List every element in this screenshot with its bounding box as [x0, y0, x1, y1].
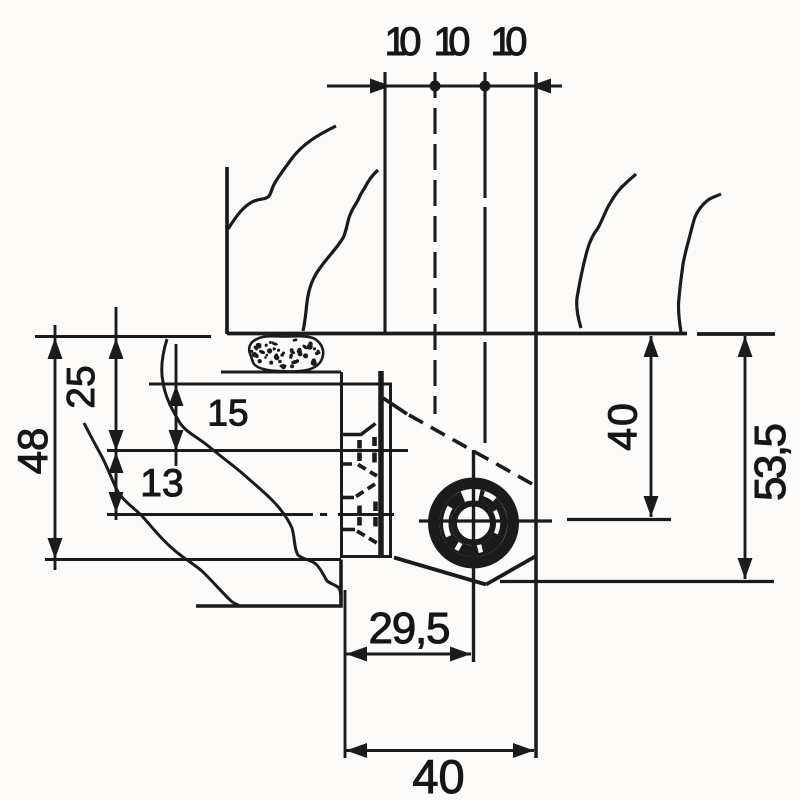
frame grain A — [162, 339, 341, 603]
frame grain B — [84, 423, 240, 606]
node dot at x=485 — [480, 81, 491, 92]
frame bottom line y=559.5 — [45, 558, 341, 561]
top dimension line 10-10-10 — [327, 85, 562, 88]
boundary line y=514 (13 bottom) — [107, 513, 394, 516]
dimension 48 line — [54, 325, 57, 570]
screw 1 hidden bottom — [343, 462, 357, 466]
clip hook white notch — [484, 494, 495, 500]
screw 2 hidden top — [343, 496, 354, 500]
wood grain panel B — [303, 170, 378, 331]
svg-text:40: 40 — [412, 750, 464, 800]
svg-text:25: 25 — [60, 365, 103, 408]
wood grain panel A — [228, 126, 336, 229]
arrow left of 10-dimension — [370, 79, 391, 94]
wood panel left edge — [225, 167, 229, 334]
hinge body bottom left diagonal — [394, 558, 486, 585]
dimension 40 right line — [650, 336, 653, 517]
frame top edge — [35, 335, 211, 338]
knuckle outer ring — [434, 483, 514, 563]
dimension 15 line — [175, 344, 178, 466]
hinge body bottom right diagonal — [486, 556, 536, 585]
right outer edge line x=536 — [534, 72, 538, 758]
screw 1 head solid top — [343, 424, 376, 435]
svg-text:10: 10 — [491, 20, 528, 64]
screw 1 hidden dashes — [360, 437, 375, 463]
svg-text:10: 10 — [385, 20, 422, 64]
boundary line y=450 (15/13) — [107, 449, 408, 452]
seal speckles — [250, 338, 320, 369]
arrow right of 10-dimension — [530, 79, 551, 94]
dimension 25/13 line — [115, 307, 118, 520]
extension line x=385 — [383, 72, 386, 333]
screw 2 hidden dashes — [360, 502, 376, 527]
wood grain panel D — [679, 194, 721, 332]
svg-text:53,5: 53,5 — [746, 423, 795, 501]
svg-text:13: 13 — [140, 462, 183, 505]
hinge body left edge — [389, 383, 392, 557]
screw plate bottom — [340, 555, 392, 558]
dimension 29,5 line — [346, 653, 471, 656]
hinge bottom edge line right — [500, 580, 774, 583]
hinge flange line y=372 — [221, 371, 341, 374]
hinge body dashed diagonal — [409, 415, 534, 485]
node dot at x=435 — [430, 81, 441, 92]
screw plate thick right line — [378, 371, 384, 557]
retaining clip annulus — [445, 495, 502, 551]
hinge body solid diagonal — [383, 398, 407, 414]
frame rabbet line y=384 — [149, 383, 392, 386]
svg-text:10: 10 — [434, 20, 471, 64]
svg-text:48: 48 — [9, 428, 56, 475]
center line x=435 dashed — [433, 72, 436, 414]
clip white gap right inner — [495, 511, 498, 534]
center line vertical of knuckle — [472, 450, 475, 662]
dimension 53,5 line — [744, 336, 747, 579]
frame step edge — [196, 560, 341, 607]
seal gasket blob — [249, 336, 323, 371]
svg-text:40: 40 — [600, 401, 646, 451]
wood grain panel C — [577, 174, 636, 328]
dimension 40 bottom line — [346, 749, 534, 752]
clip white slit bottom-right — [479, 545, 481, 553]
clip white gap left outer — [446, 507, 450, 536]
screw 2 bottom — [343, 528, 355, 532]
extension line x=344 bottom — [344, 590, 347, 758]
center line horizontal of knuckle — [419, 520, 671, 522]
screw plate left edge — [340, 372, 343, 557]
svg-text:15: 15 — [207, 393, 248, 434]
clip white slit bottom-left — [457, 543, 461, 550]
svg-text:29,5: 29,5 — [369, 604, 451, 653]
wood panel bottom edge — [227, 332, 775, 336]
pin middle ring — [454, 504, 493, 543]
center line x=485 long-dash — [483, 72, 486, 443]
